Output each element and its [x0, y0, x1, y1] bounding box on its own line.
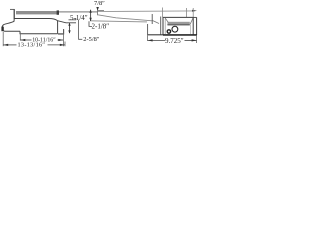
- extension x186: [186, 8, 188, 17]
- latch foot corner: [58, 29, 64, 34]
- rod thick segment behind latch: [59, 11, 97, 13]
- dimension 10-11/16 line left: [20, 39, 31, 41]
- plate recess rim line: [167, 24, 189, 26]
- short double-arrow dimension x=69.5: [69, 23, 71, 33]
- latch top bar (gray band): [16, 11, 58, 14]
- svg-text:9.725″: 9.725″: [165, 37, 184, 45]
- plate side strip verticals: [192, 17, 194, 35]
- svg-text:13-13/16″: 13-13/16″: [18, 41, 46, 48]
- plate recess left chamfer: [165, 18, 168, 22]
- plate recess right chamfer: [190, 18, 193, 25]
- svg-text:7/8″: 7/8″: [94, 0, 105, 7]
- right arrowhead of long line: [192, 10, 197, 12]
- dimension 5-1/4 vertical line with arrows: [90, 10, 92, 21]
- plate connector verticals: [151, 14, 153, 24]
- svg-text:2-1/8″: 2-1/8″: [92, 23, 110, 31]
- latch body right edge: [57, 21, 59, 34]
- dimension 9.725 left arrow: [148, 39, 153, 41]
- dimension 9.725 vertical left: [147, 35, 149, 41]
- dimension 10-11/16 left arrow: [20, 39, 25, 41]
- rod upper line: [98, 15, 152, 21]
- latch right chamfer: [58, 21, 77, 23]
- dimension 9.725 vertical right: [196, 36, 198, 43]
- long thin rod/dimension line: [97, 10, 193, 13]
- dimension 7/8 down arrow: [96, 7, 99, 11]
- dimension 10-11/16 right arrow: [58, 39, 63, 41]
- handle clasp dark bar: [1, 27, 3, 32]
- plate recess right edge: [190, 25, 192, 34]
- plate outline: [163, 17, 193, 34]
- plate bottom edge: [148, 34, 163, 36]
- hole large (ring): [172, 26, 178, 32]
- latch top bar left vertical post: [13, 9, 15, 19]
- extension line x20 (bottom dims): [19, 32, 21, 41]
- svg-text:2-5/8″: 2-5/8″: [83, 36, 99, 43]
- dimension 9.725 line right: [185, 39, 197, 41]
- dimension 13-13/16 right arrow: [60, 44, 65, 46]
- extension line x3: [2, 32, 4, 46]
- rod lower line: [90, 21, 147, 22]
- dimension 13-13/16 left arrow: [3, 44, 8, 46]
- small corner over arrow: [69, 18, 76, 20]
- dimension 13-13/16 line left: [3, 44, 16, 46]
- latch body top edge: [14, 19, 58, 21]
- plate recess band: [168, 22, 190, 26]
- plate top extension x162: [162, 8, 164, 18]
- dimension 10-11/16 line right: [58, 39, 64, 41]
- vertical extension x97.5: [98, 8, 104, 16]
- plate inner left edge: [164, 18, 166, 34]
- hole small (thick ring): [167, 30, 170, 33]
- small mark under recess: [174, 26, 177, 27]
- leader to 2-5/8 label: [79, 20, 83, 39]
- leader to 2-1/8 label: [89, 21, 92, 26]
- dimension 9.725 right arrow: [192, 39, 197, 41]
- extension line x65: [64, 42, 66, 47]
- background: [0, 0, 200, 50]
- extension line x63.5: [62, 29, 64, 46]
- extension x193: [192, 8, 194, 17]
- dimension 13-13/16 line right: [48, 44, 65, 46]
- tick at post top: [10, 8, 15, 10]
- handle loop outline: [2, 19, 20, 31]
- latch top bar right cap: [57, 10, 59, 14]
- dimension 9.725 line left: [148, 39, 165, 41]
- latch body bottom step: [20, 31, 58, 34]
